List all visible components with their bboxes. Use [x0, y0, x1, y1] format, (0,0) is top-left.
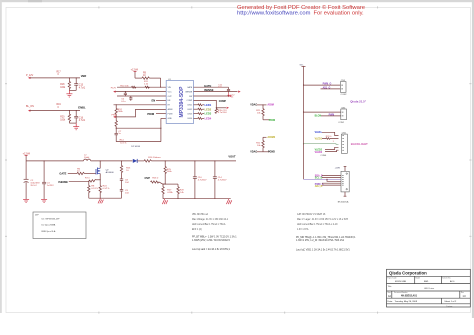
wire staircase to row L6: [116, 109, 167, 117]
label C6 0.1u: [121, 99, 126, 103]
wire cn6 pin1: [322, 174, 341, 176]
svg-text:VCC: VCC: [168, 91, 173, 93]
svg-text:PWM: PWM: [112, 114, 117, 116]
wire row L8: [161, 117, 166, 119]
label R6 10: [77, 168, 81, 172]
wire rail mid: [91, 160, 133, 162]
capacitor C5 (on L2): [124, 92, 127, 97]
svg-text:Schem Rev: Schem Rev: [442, 277, 450, 279]
svg-text:BL_ON: BL_ON: [26, 105, 34, 108]
svg-text:4.7u/50V: 4.7u/50V: [218, 180, 227, 182]
node junction comp: [216, 107, 217, 108]
node junction sense1: [88, 181, 89, 182]
wire row L7: [156, 113, 166, 115]
svg-text:100k: 100k: [60, 87, 66, 89]
wire row R3 SW: [194, 95, 230, 97]
wire cn6 pin5: [322, 182, 341, 184]
label R7 0: [85, 177, 90, 179]
wire net ENBL: [30, 110, 80, 112]
ground GND2: [73, 123, 79, 130]
port arrow down (gate rc): [227, 93, 229, 98]
port P_12V: [26, 74, 34, 79]
svg-text:R10 10k: R10 10k: [120, 85, 129, 87]
power flag cn6 top: [335, 166, 347, 171]
svg-text:SW: SW: [189, 96, 192, 98]
svg-text:Tuesday, May 26, 2009: Tuesday, May 26, 2009: [395, 301, 418, 303]
wire comp branch: [216, 107, 226, 109]
wire vertical right bias: [160, 118, 162, 141]
label R22 10k: [256, 142, 261, 147]
wire cn6 pin6: [322, 184, 341, 186]
wire cn6 pin2: [322, 176, 341, 178]
resistor R12 (vertical chain top): [115, 105, 117, 117]
power +12VA top: [131, 69, 139, 79]
svg-text:VLED+: VLED+: [315, 132, 323, 134]
svg-text:VDAC: VDAC: [250, 103, 257, 106]
svg-text:D2 Dpcs/SMA: D2 Dpcs/SMA: [42, 224, 56, 227]
Foxit watermark line 1: [237, 4, 365, 11]
inductor L2: [84, 159, 91, 161]
resistor R25 (ovp top): [164, 161, 166, 184]
svg-text:+5VB: +5VB: [335, 167, 341, 169]
node junction OVP top: [165, 160, 166, 161]
svg-text:Rev: Rev: [461, 292, 464, 294]
wire horizontal bias bottom: [116, 141, 161, 143]
wire row R1 GATE: [194, 86, 229, 88]
node junction snub: [121, 160, 122, 161]
wire sense rail: [89, 197, 122, 199]
wire rail left: [26, 160, 83, 162]
wire: [257, 151, 270, 153]
svg-text:C15: C15: [79, 85, 84, 87]
node junction C10: [194, 160, 195, 161]
svg-text:EFF 1 (2): EFF 1 (2): [192, 229, 202, 231]
capacitor C2 electrolytic input: [24, 161, 29, 200]
wire feed down to pin1: [160, 78, 162, 87]
svg-text:COMP: COMP: [219, 100, 227, 103]
resistor R18: [68, 78, 70, 91]
capacitor C3: [42, 161, 46, 200]
svg-text:R19: R19: [57, 104, 62, 106]
label R8b 0.1: [103, 185, 110, 189]
resistor R16 (series 10ohm): [144, 160, 151, 162]
wire drain up: [99, 161, 101, 167]
svg-text:P12V: P12V: [111, 87, 117, 89]
U1 right pin names: [185, 86, 193, 120]
svg-text:GATE: GATE: [59, 171, 66, 175]
svg-text:VBL NICHIA uA: VBL NICHIA uA: [192, 213, 208, 216]
wire: [69, 122, 76, 124]
svg-text:CON6: CON6: [320, 155, 327, 157]
wire cn6 pin4: [327, 179, 341, 181]
svg-text:ISENSE: ISENSE: [185, 91, 193, 93]
svg-text:10 1%: 10 1%: [120, 143, 126, 145]
capacitor C10 output: [193, 161, 197, 199]
svg-text:LED4: LED4: [205, 117, 212, 121]
Foxit watermark line 2: [237, 11, 364, 17]
wire bus vertical: [303, 66, 305, 179]
capacitor C15: [74, 78, 78, 91]
resistor R8a sense: [88, 181, 90, 198]
svg-text:1.3W/5 (25V, 1.2W / 30.15V1/0A: 1.3W/5 (25V, 1.2W / 30.15V1/0A0.5: [192, 239, 230, 242]
svg-text:4.7u/1: 4.7u/1: [79, 88, 86, 90]
label R10: [120, 85, 129, 87]
svg-text:ADIM: ADIM: [267, 104, 273, 107]
ground GND7 slashes: [226, 199, 231, 204]
wire isense: [69, 180, 89, 182]
svg-text:Custom: Custom: [446, 305, 453, 308]
svg-text:U1: MP3394S-DIP: U1: MP3394S-DIP: [42, 218, 61, 220]
svg-text:ADIM2: ADIM2: [267, 136, 275, 139]
resistor R22: [262, 137, 264, 152]
wire cn5 pin1: [322, 132, 339, 135]
svg-text:D2 SS34: D2 SS34: [131, 146, 141, 148]
resistor R21: [262, 105, 264, 120]
ground GND1: [66, 90, 72, 97]
label C8 104: [125, 179, 129, 183]
wire rail right2: [151, 160, 236, 162]
node junction OVP tap: [165, 184, 166, 185]
port arrow right (sw): [230, 95, 232, 97]
connector CN3 wires: [304, 85, 341, 89]
svg-text:LED2: LED2: [205, 107, 212, 111]
capacitor C7 (bias chain): [115, 128, 118, 141]
wire source down: [99, 176, 101, 186]
title block size row: [388, 291, 465, 294]
node junction sense2: [100, 179, 101, 180]
svg-text:LED4: LED4: [187, 118, 192, 120]
connector CN4 wires: [304, 112, 341, 116]
svg-text:GATE: GATE: [187, 86, 193, 89]
label R27 4.99k: [167, 190, 173, 194]
ground GND5 slashes: [98, 198, 103, 203]
label C10 4.7u: [198, 177, 207, 181]
U1 left pin names: [168, 87, 173, 120]
svg-text:PDIM: PDIM: [168, 113, 173, 115]
node junction B1: [69, 110, 70, 111]
capacitor C16: [74, 111, 78, 124]
wire cn5 pin4 long: [304, 143, 339, 146]
capacitor C6 (on L3): [129, 96, 132, 101]
wire gate2: [84, 173, 96, 175]
svg-text:PWM: PWM: [329, 114, 335, 116]
resistor R15 (comp): [215, 108, 217, 114]
label R19 0: [57, 104, 62, 109]
svg-text:Qisda Corporation: Qisda Corporation: [389, 271, 427, 276]
svg-text:BLON: BLON: [315, 115, 322, 117]
svg-text:BACKLIGHT: BACKLIGHT: [351, 142, 368, 146]
resistor R26 (ovp tap): [151, 181, 166, 184]
wire horizontal bias mid: [116, 127, 161, 129]
svg-text:R16 10ohms: R16 10ohms: [148, 157, 161, 159]
label C12: [231, 94, 236, 98]
resistor R3 (led2): [194, 108, 205, 110]
wire isense to source: [96, 179, 100, 181]
svg-text:ADJ_O: ADJ_O: [323, 86, 331, 89]
svg-text:VLED1: VLED1: [315, 138, 323, 140]
resistor R13 (bias chain): [115, 117, 117, 128]
node junction C14: [214, 160, 215, 161]
wire row L5: [114, 104, 167, 106]
svg-text:Max Voltage: 41.3V 1 150 160 4: Max Voltage: 41.3V 1 150 160 44-1: [192, 218, 229, 221]
svg-text:1u/25V: 1u/25V: [47, 185, 54, 187]
svg-text:0.1/1%: 0.1/1%: [91, 188, 98, 190]
svg-text:VLED3: VLED3: [315, 152, 323, 154]
svg-text:4.7n/104: 4.7n/104: [218, 112, 227, 114]
node junction bus2: [303, 112, 304, 113]
resistor R5 (led4): [194, 117, 205, 119]
label C2 100u/35V: [30, 180, 40, 187]
svg-text:Date:: Date:: [388, 300, 394, 303]
label R21 10k: [256, 110, 261, 115]
wire cn5 pin6: [325, 150, 339, 151]
wire rail right1: [137, 160, 144, 162]
wire: [263, 119, 270, 121]
svg-text:1.3W /1 25V, 1.2_W / MAX10.075: 1.3W /1 25V, 1.2_W / MAX10.075A / 503.1S…: [296, 239, 345, 242]
svg-text:4.99k: 4.99k: [167, 192, 173, 194]
svg-text:LED1: LED1: [205, 103, 212, 107]
label R12 768k: [118, 109, 124, 113]
svg-text:LED3: LED3: [205, 112, 212, 116]
diode D2 SS34: [133, 159, 137, 163]
svg-text:ADJ_B: ADJ_B: [315, 185, 323, 188]
svg-text:VOUT: VOUT: [228, 154, 236, 158]
svg-text:PWM_O: PWM_O: [323, 84, 332, 86]
svg-text:6S32-FLNB: 6S32-FLNB: [395, 281, 406, 283]
resistor R6 gate: [77, 172, 84, 174]
svg-text:PDIM: PDIM: [269, 119, 275, 122]
svg-text:R17: R17: [57, 71, 62, 73]
port BL_ON: [26, 105, 34, 112]
resistor R28 (ovp lower b): [177, 184, 179, 199]
transistor Q2 AO4406: [96, 167, 100, 176]
node junction B2: [76, 110, 77, 111]
svg-text:R8B 2pcs R-A: R8B 2pcs R-A: [42, 230, 56, 233]
wire row R4 COMP: [194, 100, 217, 107]
node junction bias: [160, 128, 161, 129]
svg-text:Qisda 21.5": Qisda 21.5": [350, 99, 366, 103]
capacitor C8 (snubber): [120, 179, 123, 190]
svg-text:VDAC: VDAC: [250, 150, 257, 153]
svg-text:AJP NICHIA5V V1 9S2P 16: AJP NICHIA5V V1 9S2P 16: [297, 213, 326, 216]
svg-text:R26 0: R26 0: [152, 178, 159, 180]
node junction SW: [100, 160, 101, 161]
wire: [69, 89, 76, 91]
svg-text:VBR: VBR: [81, 74, 87, 78]
svg-text:LED current/Bar 1 75mA 1 75mA: LED current/Bar 1 75mA 1 75mA: [192, 223, 226, 226]
label R14: [120, 139, 127, 144]
svg-text:LED current/Bar 1 75mA 1 75mA: LED current/Bar 1 75mA 1 75mA x 2-19: [297, 223, 338, 226]
svg-text:COMP: COMP: [187, 100, 193, 102]
svg-text:GATE: GATE: [204, 84, 211, 88]
svg-text:LED1: LED1: [187, 105, 192, 107]
connector CN3: [340, 80, 347, 96]
wire row L1: [117, 86, 166, 88]
label R17 0: [57, 71, 62, 76]
label R20 100k: [60, 117, 66, 122]
label C3 1u: [47, 183, 54, 187]
node junction bus3: [303, 143, 304, 144]
svg-text:ISENSE: ISENSE: [204, 88, 214, 92]
wire: [257, 104, 267, 106]
capacitor C9 (snubber2): [120, 190, 123, 199]
resistor R4 (led3): [194, 113, 205, 115]
resistor R8b sense: [99, 186, 101, 199]
port arrow right (isense): [238, 91, 240, 93]
node junction L5: [116, 104, 117, 105]
label R18 100k: [60, 84, 66, 89]
ground cn6 bottom: [344, 192, 347, 196]
svg-text:R29 0: R29 0: [326, 136, 332, 138]
resistor R23 (snubber): [120, 161, 122, 179]
node junction cn6: [326, 179, 327, 180]
power +12VA rail flag: [23, 153, 31, 161]
resistor R29 cn5: [322, 138, 339, 140]
svg-text:100k: 100k: [60, 120, 66, 122]
resistor R9 (series on feed): [135, 77, 161, 79]
label C14 4.7u: [218, 177, 227, 181]
connector CN5: [320, 133, 347, 157]
label C11 10n: [218, 84, 223, 88]
svg-text:35-5-2: 35-5-2: [30, 185, 37, 187]
svg-text:Lout Iqt sat2 = 2A 3A 1 8x 2V/: Lout Iqt sat2 = 2A 3A 1 8x 2V/C5V,1: [192, 248, 231, 251]
label R9 10: [143, 72, 147, 77]
svg-text:LED3: LED3: [187, 113, 192, 115]
resistor R10 (on L1): [132, 86, 137, 88]
svg-text:Max V. Lager: 41.3V 1 150 15V: Max V. Lager: 41.3V 1 150 15V 5-1.2V x 1…: [297, 218, 349, 221]
label C9 104: [125, 190, 129, 194]
label C7 1u: [118, 131, 122, 135]
svg-text:C16: C16: [79, 117, 84, 119]
notes column 2 formulas: [296, 236, 356, 242]
capacitor C14 output: [213, 161, 217, 199]
node junction feed: [160, 87, 161, 88]
label R25 100k: [167, 169, 173, 173]
title block row2: [387, 276, 450, 279]
svg-text:Model: Model: [416, 277, 421, 279]
wire ovp box top: [163, 183, 178, 185]
svg-text:GND: GND: [168, 118, 173, 120]
svg-text:Lout IqC V051 1 2A 3A 1 5x 2.4: Lout IqC V051 1 2A 3A 1 5x 2.4V/2.7A 1 8…: [296, 249, 350, 252]
svg-text:LED2: LED2: [187, 109, 192, 111]
svg-text:ENBL: ENBL: [78, 105, 86, 109]
wire row R2 ISENSE: [194, 91, 238, 93]
node junction bus1: [303, 85, 304, 86]
svg-text:BK10018-A: BK10018-A: [338, 200, 349, 203]
wire output gnd rail: [163, 198, 231, 200]
label L2 10uH: [84, 154, 90, 158]
svg-text:For evaluation only.: For evaluation only.: [314, 11, 365, 17]
wire row L4: [156, 99, 166, 101]
svg-text:Sheet 1 of 2: Sheet 1 of 2: [444, 300, 457, 303]
ground GND4: [41, 199, 47, 202]
node junction MA: [262, 104, 263, 105]
svg-text:R18: R18: [60, 84, 65, 86]
svg-text:4.7u/1: 4.7u/1: [79, 120, 86, 122]
svg-text:10uH: 10uH: [84, 157, 90, 159]
svg-text:LED Driver: LED Driver: [424, 287, 434, 290]
wire net VBRT: [30, 77, 80, 79]
svg-text:1.3V 1 97A: 1.3V 1 97A: [297, 228, 309, 231]
label C16 4.7u: [79, 117, 86, 122]
node junction A2: [76, 77, 77, 78]
node junction L2: [125, 91, 126, 92]
port PWM arrow row L6: [113, 116, 115, 118]
wire row L2: [116, 91, 167, 93]
wire gate: [68, 173, 77, 175]
resistor R7 isense: [89, 180, 96, 183]
svg-text:AO4406: AO4406: [106, 171, 115, 174]
node junction bias2: [116, 128, 117, 129]
node junction C3: [44, 160, 45, 161]
wire cn6 pin3 lavender: [304, 178, 342, 180]
svg-text:ISENSE: ISENSE: [58, 180, 68, 184]
svg-text:0.1/1%: 0.1/1%: [103, 188, 110, 190]
svg-text:ADIM: ADIM: [168, 108, 173, 111]
ground GND3: [23, 199, 29, 202]
svg-text:EN: EN: [152, 99, 156, 103]
svg-text:PDIM: PDIM: [147, 112, 154, 116]
connector CN4: [338, 108, 346, 125]
node junction A1: [69, 77, 70, 78]
resistor R27 (ovp lower a): [162, 184, 164, 199]
svg-text:PGND: PGND: [268, 150, 275, 153]
resistor R20: [68, 111, 70, 124]
resistor R11 (on L1): [145, 86, 150, 88]
connector CN6: [341, 171, 349, 192]
svg-text:R20: R20: [60, 117, 65, 119]
label R28 2.4k: [180, 190, 185, 194]
wire cn5 pin5: [325, 147, 339, 149]
svg-text:DIP: DIP: [35, 215, 39, 217]
ground GND6 slashes: [162, 199, 167, 204]
label R11 2.2k: [144, 81, 149, 85]
op-amp U1 body: [166, 79, 193, 124]
wire row L3: [117, 95, 166, 97]
power flag 5V bus: [300, 65, 306, 67]
svg-text:CON2: CON2: [338, 122, 345, 124]
label R23 10: [126, 167, 131, 171]
capacitor C12 (gate): [227, 87, 230, 92]
port arrow right (comp): [227, 107, 229, 109]
svg-text:http://www.foxitsoftware.com: http://www.foxitsoftware.com: [237, 11, 311, 17]
notes column 1 formulas: [192, 236, 237, 242]
svg-text:Size: Size: [388, 292, 391, 294]
label R15 C13: [218, 110, 227, 114]
label Q2 AO4406: [106, 169, 115, 173]
svg-text:OVP: OVP: [145, 176, 151, 180]
svg-text:4.7u/50V: 4.7u/50V: [198, 180, 207, 182]
label C15 4.7u: [79, 85, 86, 90]
svg-text:4H.0SE02.A01: 4H.0SE02.A01: [401, 295, 418, 298]
port VDD arrow row L2: [113, 91, 115, 93]
resistor R2 (led1): [194, 104, 205, 106]
svg-text:P_12V: P_12V: [26, 74, 34, 77]
label R8a 0.1: [91, 185, 98, 189]
wire: [263, 136, 267, 138]
svg-text:CON2: CON2: [341, 94, 348, 96]
